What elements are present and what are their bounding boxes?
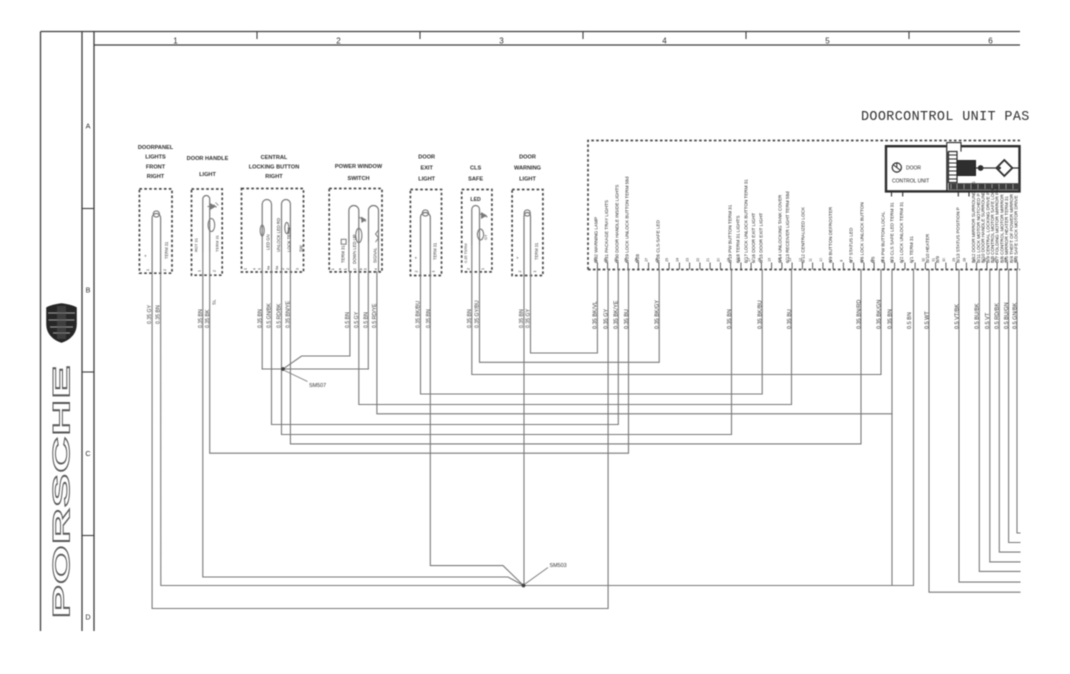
svg-text:+: +	[144, 254, 147, 259]
wire X2.2 door handle light to control unit 6/29	[210, 270, 629, 454]
svg-text:LIGHT: LIGHT	[418, 177, 435, 183]
control unit A5 dashed boundary	[588, 141, 1020, 270]
svg-text:6/7 STATUS LED: 6/7 STATUS LED	[849, 227, 854, 263]
svg-text:1: 1	[197, 270, 201, 272]
svg-text:27: 27	[645, 258, 649, 262]
svg-text:6: 6	[988, 37, 993, 46]
svg-text:2: 2	[415, 271, 419, 273]
svg-text:4: 4	[252, 268, 256, 270]
wire X5.1 door exit light to control unit 6/16	[421, 270, 763, 395]
svg-text:LED: LED	[470, 197, 481, 203]
svg-text:4: 4	[662, 37, 667, 46]
svg-text:11: 11	[809, 258, 813, 262]
wire X7.1 door warning light to SM503	[523, 276, 525, 586]
svg-text:6/28: 6/28	[635, 254, 640, 263]
svg-text:22: 22	[696, 258, 700, 262]
control unit connector label strip	[949, 183, 1020, 190]
svg-text:SM503: SM503	[550, 563, 567, 569]
control unit connector plug symbol	[947, 143, 1020, 183]
wire A5 drop folding motor	[1009, 270, 1020, 543]
wire X1.2 doorpanel light to ground point SM503	[161, 273, 524, 585]
svg-text:6/19 PW BUTTON TERM 31: 6/19 PW BUTTON TERM 31	[727, 204, 732, 263]
component X2 DOOR HANDLE LIGHT	[187, 156, 229, 275]
svg-text:DOOR: DOOR	[906, 166, 921, 172]
svg-text:28: 28	[963, 258, 967, 262]
svg-text:3: 3	[296, 268, 300, 270]
svg-text:LIGHT: LIGHT	[199, 172, 216, 178]
svg-text:CONTROL UNIT: CONTROL UNIT	[892, 179, 929, 185]
svg-text:1: 1	[331, 268, 335, 270]
svg-text:1: 1	[344, 268, 348, 270]
svg-text:20: 20	[717, 258, 721, 262]
svg-text:TERM 31: TERM 31	[215, 234, 220, 252]
svg-text:6/31 PACKAGE TRAY LIGHTS: 6/31 PACKAGE TRAY LIGHTS	[604, 200, 609, 263]
svg-text:UNLOCK LED RD: UNLOCK LED RD	[276, 218, 281, 252]
wire X3.4 locking button to control unit 6/9	[290, 270, 861, 444]
row boundary ticks left	[82, 209, 94, 536]
svg-text:2: 2	[286, 268, 290, 270]
svg-text:6/9 BUTTON DEFROSTER: 6/9 BUTTON DEFROSTER	[828, 206, 833, 263]
wire A5 drop mirror surround	[979, 270, 1020, 572]
svg-text:EXIT: EXIT	[420, 166, 433, 172]
control unit pin name labels	[594, 176, 1019, 263]
svg-text:15: 15	[768, 258, 772, 262]
wire X6.1 cls safe to control unit 6/4	[472, 270, 881, 375]
wire X6.2 cls safe to control unit 6/26	[480, 270, 660, 363]
component X5 DOOR EXIT LIGHT	[410, 155, 441, 276]
svg-text:1: 1	[533, 271, 537, 273]
component X3 CENTRAL LOCKING BUTTON RIGHT	[242, 155, 304, 272]
svg-text:30: 30	[942, 258, 946, 262]
wire A5 drop handle surround	[990, 270, 1020, 562]
svg-text:GY: GY	[483, 234, 488, 240]
control unit pin row ticks and numbers	[594, 258, 1018, 270]
svg-text:21: 21	[706, 258, 710, 262]
svg-text:DOWN LED UP: DOWN LED UP	[352, 234, 357, 264]
wire A5 drop status position	[959, 270, 1020, 583]
svg-text:D: D	[85, 613, 90, 622]
svg-text:PORSCHE: PORSCHE	[48, 364, 75, 618]
svg-text:6/12 CENTRALIZED LOCK: 6/12 CENTRALIZED LOCK	[800, 206, 805, 263]
svg-text:TERM 31: TERM 31	[341, 245, 346, 263]
svg-text:3: 3	[364, 268, 368, 270]
wire X3.3 locking button to control unit 6/19	[282, 270, 732, 435]
svg-text:5: 5	[825, 37, 830, 46]
svg-text:23: 23	[686, 258, 690, 262]
svg-text:SWITCH: SWITCH	[347, 176, 369, 182]
svg-text:LED GN: LED GN	[266, 234, 271, 250]
wire X4.3 window switch to SM507 line	[367, 272, 369, 369]
svg-text:2: 2	[353, 268, 357, 270]
svg-text:6/16 DOOR EXIT LIGHT: 6/16 DOOR EXIT LIGHT	[751, 213, 756, 263]
svg-text:1: 1	[258, 268, 262, 270]
wire A5 drop 6/2 to ground line	[891, 270, 893, 586]
wire A5 drop control motor	[999, 270, 1020, 553]
svg-text:0.5 BN: 0.5 BN	[907, 312, 913, 329]
svg-text:2: 2	[518, 271, 522, 273]
junction SM507	[281, 367, 285, 371]
svg-text:6/14 UNLOCKING TANK COVER: 6/14 UNLOCKING TANK COVER	[777, 194, 782, 263]
wire X4.1 window switch to SM507	[283, 272, 350, 369]
svg-text:LOCK TERM: LOCK TERM	[287, 227, 292, 252]
svg-text:TERM 31: TERM 31	[432, 242, 437, 260]
wire X3.1 locking button to SM507	[261, 271, 263, 369]
svg-text:B/10 HEATER: B/10 HEATER	[925, 233, 930, 263]
svg-text:6/1 TERM 31: 6/1 TERM 31	[909, 236, 914, 263]
svg-text:2: 2	[336, 37, 341, 46]
svg-text:CENTRAL: CENTRAL	[261, 155, 288, 161]
svg-text:6/3 CLS SAFE LED TERM 31: 6/3 CLS SAFE LED TERM 31	[889, 202, 894, 263]
svg-text:24: 24	[676, 258, 680, 262]
svg-text:B/3 SAFE LOCK MOTOR DRIVE: B/3 SAFE LOCK MOTOR DRIVE	[1014, 195, 1019, 263]
control unit inner box DOOR CONTROL UNIT	[886, 146, 1020, 191]
svg-text:A: A	[86, 122, 91, 131]
svg-text:SAFE: SAFE	[468, 177, 483, 183]
wire X4.4 window switch to control unit 6/3	[377, 272, 892, 414]
svg-text:WARNING: WARNING	[514, 166, 541, 172]
svg-text:1: 1	[481, 268, 485, 270]
svg-text:a: a	[338, 268, 342, 270]
svg-text:B/9: B/9	[935, 256, 940, 263]
svg-text:6/18 TERM 31 LIGHTS: 6/18 TERM 31 LIGHTS	[735, 216, 740, 263]
svg-text:C: C	[85, 449, 90, 458]
svg-text:LIGHT: LIGHT	[519, 177, 536, 183]
svg-text:POWER WINDOW: POWER WINDOW	[335, 164, 383, 170]
wire X5.2 door exit light to SM503	[430, 276, 523, 586]
svg-text:TERM 31: TERM 31	[534, 242, 539, 260]
svg-text:DOOR: DOOR	[519, 155, 536, 161]
junction SM503	[522, 584, 526, 588]
svg-text:1: 1	[244, 268, 248, 270]
svg-text:RIGHT: RIGHT	[147, 174, 165, 180]
svg-text:0.35 BN: 0.35 BN	[426, 309, 432, 328]
svg-text:4a: 4a	[267, 266, 271, 270]
svg-text:SM507: SM507	[309, 383, 326, 389]
svg-text:6/32 WARNING LAMP: 6/32 WARNING LAMP	[594, 217, 599, 263]
svg-text:2: 2	[466, 268, 470, 270]
svg-text:DOOR: DOOR	[418, 155, 435, 161]
svg-text:6/30 DOOR HANDLE INSIDE LIGHTS: 6/30 DOOR HANDLE INSIDE LIGHTS	[614, 185, 619, 263]
svg-text:8: 8	[840, 260, 844, 262]
svg-text:B: B	[86, 286, 91, 295]
leader line SM503	[525, 568, 548, 585]
svg-text:SW: SW	[299, 245, 304, 252]
svg-text:6/13 RECEIVER LIGHT TERM 58d: 6/13 RECEIVER LIGHT TERM 58d	[785, 191, 790, 263]
svg-text:6/26 CLS-SAFE LED: 6/26 CLS-SAFE LED	[655, 219, 660, 263]
svg-text:TERM 31: TERM 31	[164, 241, 169, 259]
svg-text:FRONT: FRONT	[146, 164, 166, 170]
svg-text:2: 2	[281, 268, 285, 270]
component X6 CLS SAFE	[462, 166, 492, 272]
svg-text:+: +	[414, 256, 417, 261]
svg-text:ROT 31: ROT 31	[193, 237, 198, 252]
ruler column numbers 1-6	[173, 37, 993, 46]
svg-text:SL: SL	[212, 299, 217, 305]
wire X2.1 door handle light to SM503	[203, 275, 524, 585]
svg-text:6/29 LOCK UNLOCK BUTTON TERM 5: 6/29 LOCK UNLOCK BUTTON TERM 58d	[625, 176, 630, 263]
svg-text:DOORCONTROL UNIT PAS: DOORCONTROL UNIT PAS	[861, 110, 1030, 125]
control unit wire color labels	[593, 300, 1019, 329]
svg-text:2: 2	[163, 269, 167, 271]
svg-text:3: 3	[499, 37, 504, 46]
wire X7.2 door warning light to control unit 6/32	[531, 270, 598, 354]
svg-text:6/5: 6/5	[871, 256, 876, 263]
svg-text:6/2 LOCK UNLOCK TERM 31: 6/2 LOCK UNLOCK TERM 31	[899, 201, 904, 263]
ruler column ticks top	[257, 32, 909, 40]
svg-text:+: +	[516, 256, 519, 261]
svg-text:DOOR HANDLE: DOOR HANDLE	[187, 156, 229, 162]
svg-text:4a: 4a	[275, 266, 279, 270]
wire A5 ground drop to SM503	[524, 270, 914, 586]
svg-text:2: 2	[213, 270, 217, 272]
Porsche crest logo	[47, 304, 77, 343]
svg-text:DOORPANEL: DOORPANEL	[138, 145, 174, 151]
svg-text:LOCKING BUTTON: LOCKING BUTTON	[249, 165, 300, 171]
wire X4.2 window switch to control unit 6/15	[359, 270, 792, 405]
component X7 DOOR WARNING LIGHT	[512, 155, 543, 276]
svg-text:LIGHTS: LIGHTS	[145, 155, 166, 161]
svg-text:1: 1	[431, 271, 435, 273]
row letters A B C D	[85, 122, 90, 622]
svg-text:6/4 PW BUTTON LOCAL: 6/4 PW BUTTON LOCAL	[880, 211, 885, 263]
svg-text:CLS: CLS	[470, 166, 481, 172]
svg-text:6/6 LOCK UNLOCK BUTTON: 6/6 LOCK UNLOCK BUTTON	[859, 202, 864, 263]
svg-text:6/15 DOOR EXIT LIGHT: 6/15 DOOR EXIT LIGHT	[759, 213, 764, 263]
svg-text:25: 25	[665, 258, 669, 262]
control unit inner box pin stubs	[892, 191, 970, 196]
wire X3.2 locking button to control unit 6/30	[272, 270, 619, 425]
svg-text:SIGNAL: SIGNAL	[373, 247, 378, 263]
svg-text:1: 1	[146, 269, 150, 271]
svg-text:6/17 LOCK UNLOCK BUTTON TERM 3: 6/17 LOCK UNLOCK BUTTON TERM 31	[743, 179, 748, 263]
svg-text:1: 1	[173, 37, 178, 46]
svg-text:RIGHT: RIGHT	[265, 174, 283, 180]
wire A5 drop mirror heater	[1017, 270, 1020, 534]
component X1 DOORPANEL LIGHTS FRONT RIGHT	[138, 145, 174, 273]
leader line SM507	[285, 371, 308, 382]
wire SM507 junction bus	[262, 368, 368, 370]
svg-text:b: b	[359, 268, 363, 270]
svg-text:B/13 STATUS POSITION P: B/13 STATUS POSITION P	[956, 207, 961, 263]
wire X1.1 doorpanel light to control unit 6/31	[152, 270, 608, 609]
svg-text:4: 4	[374, 268, 378, 270]
svg-text:10: 10	[819, 258, 823, 262]
svg-text:0.35 TERM: 0.35 TERM	[463, 243, 468, 263]
component X4 POWER WINDOW SWITCH	[329, 164, 383, 272]
wire A5 drop to door lock motor	[929, 270, 1020, 593]
